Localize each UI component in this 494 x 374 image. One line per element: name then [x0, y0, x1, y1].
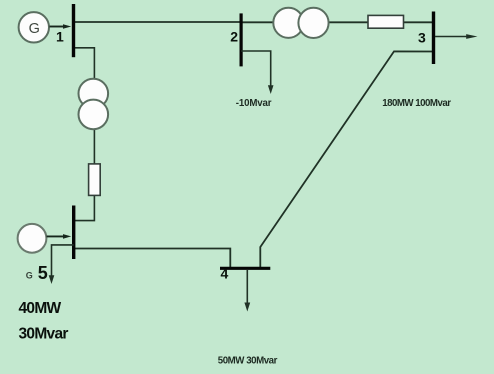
- svg-text:G: G: [26, 271, 33, 281]
- wire bus5 load stub: [52, 245, 74, 277]
- svg-text:2: 2: [230, 29, 238, 45]
- svg-text:40MW: 40MW: [19, 300, 62, 317]
- bus 5: [72, 206, 75, 260]
- bus 4: [220, 267, 270, 270]
- wire bus2-transformer2-bus3: [241, 21, 434, 23]
- transformer T1 circle bottom: [79, 100, 109, 130]
- reactor rectangle R1: [89, 164, 101, 196]
- wire transformer T1 to rectangle R1: [93, 128, 95, 164]
- svg-text:3: 3: [418, 29, 426, 45]
- transformer T2 circle left: [273, 8, 303, 38]
- arrow load bus5: [49, 275, 55, 284]
- arrow load bus2: [268, 85, 274, 94]
- generator G5 circle: [18, 224, 47, 253]
- reactor rectangle R2: [368, 15, 404, 28]
- wire bus2 load stub: [241, 51, 271, 87]
- svg-text:-10Mvar: -10Mvar: [236, 98, 272, 109]
- wire bus1-bus2: [74, 21, 242, 23]
- svg-text:4: 4: [221, 266, 229, 282]
- svg-text:1: 1: [56, 28, 64, 44]
- bus 3: [432, 12, 435, 65]
- arrow bus3 export: [435, 34, 478, 39]
- wire bus1 stub to transformer T1: [74, 48, 95, 80]
- arrow generator G1 to bus 1: [50, 24, 72, 29]
- arrow generator G5 to bus 5: [47, 234, 72, 239]
- arrow load bus4: [244, 303, 250, 312]
- wire bus4 load stub: [246, 270, 248, 304]
- generator G1 circle: [19, 12, 49, 42]
- wire rectangle R1 to bus5: [74, 195, 95, 220]
- wire bus3-bus4 diagonal: [260, 51, 433, 267]
- svg-text:180MW 100Mvar: 180MW 100Mvar: [382, 98, 451, 109]
- bus 2: [240, 13, 243, 66]
- svg-text:50MW 30Mvar: 50MW 30Mvar: [218, 355, 278, 366]
- svg-text:30Mvar: 30Mvar: [19, 325, 69, 342]
- transformer T2 circle right: [298, 8, 328, 38]
- svg-text:5: 5: [38, 263, 48, 283]
- transformer T1 circle top: [79, 79, 109, 109]
- bus 1: [72, 4, 75, 57]
- wire bus5-bus4: [74, 249, 231, 268]
- svg-text:G: G: [29, 21, 40, 37]
